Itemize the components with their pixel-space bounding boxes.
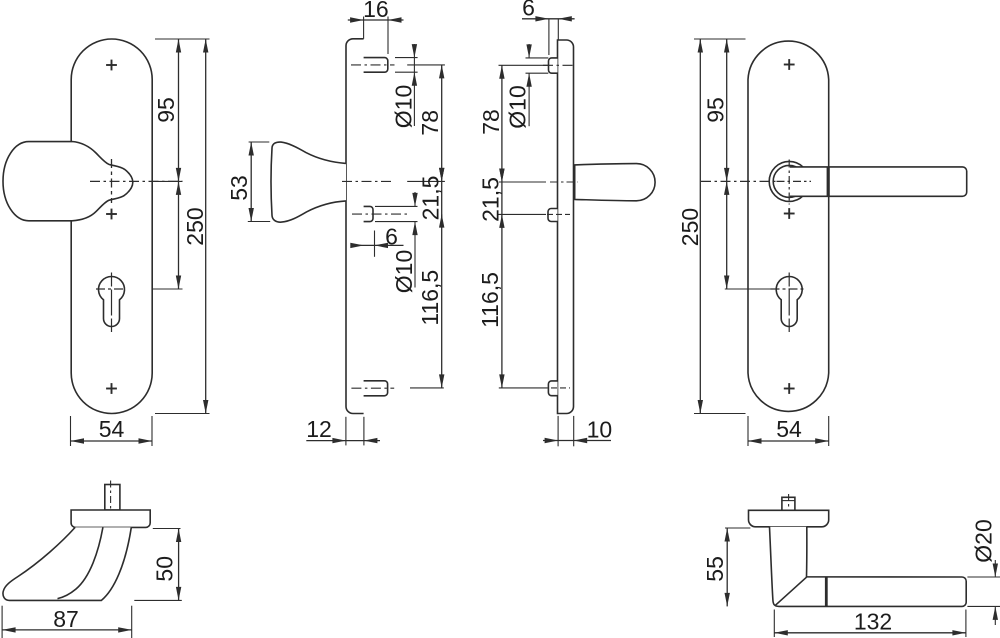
bolt middle centerline (fig3): [547, 213, 570, 215]
extension line plate top (fig1): [155, 38, 210, 40]
svg-text:78: 78: [478, 109, 504, 135]
lever bend miter line (fig6): [775, 577, 807, 606]
extension plate top (fig4): [694, 38, 746, 40]
cylinder axis cross vertical (fig1): [111, 273, 113, 333]
dimension 12 (fig2): [345, 417, 347, 446]
extension bolt-top axis (fig3): [499, 64, 550, 66]
dimension 78 (fig2): [441, 65, 443, 181]
exterior plate front view (stadium outline): [71, 39, 152, 414]
lever axis centerline vertical (fig4): [788, 160, 790, 205]
dimension 54 (fig4): [747, 416, 749, 446]
dimension 21,5 (fig3): [501, 182, 503, 214]
svg-text:95: 95: [702, 97, 728, 123]
lever rose (fig6): [749, 510, 829, 527]
svg-text:Ø10: Ø10: [504, 85, 530, 128]
extension bolt-top axis (fig2): [407, 64, 445, 66]
screw mark below axis (fig1): [106, 213, 117, 215]
screw mark bottom (fig1): [106, 388, 117, 390]
extension mid-bolt axis (fig3): [497, 213, 546, 215]
bolt bottom centerline (fig2): [351, 387, 394, 389]
bolt bottom centerline (fig3): [551, 387, 570, 389]
svg-text:Ø10: Ø10: [391, 250, 417, 293]
svg-text:54: 54: [776, 416, 802, 442]
plate side view interior (section): [558, 40, 574, 414]
dimension 116,5 (fig2): [441, 214, 443, 388]
dimension 250 (fig1): [205, 39, 207, 414]
dimension 21,5 (fig2): [441, 181, 443, 214]
dimension 95 (fig4): [726, 39, 728, 181]
plate side view exterior (section): [346, 39, 364, 414]
bolt top centerline (fig3): [543, 64, 576, 66]
cylinder axis cross horizontal (fig1): [96, 288, 124, 290]
dimension 95 (fig1): [178, 39, 180, 181]
dimension 6 (fig3): [548, 19, 550, 55]
dimension 16 (fig2): [363, 17, 365, 39]
svg-text:53: 53: [226, 175, 252, 201]
dimension 87 (fig5): [1, 606, 3, 638]
bolt top centerline (fig2): [351, 64, 395, 66]
lever rose inner circle (fig4): [773, 165, 805, 197]
fixing bolt bottom (fig2): [364, 381, 388, 396]
interior plate front view (stadium outline): [748, 41, 829, 411]
svg-text:Ø10: Ø10: [390, 85, 416, 128]
knob body (fig5): [3, 527, 131, 600]
screw mark bottom (fig4): [784, 388, 795, 390]
spindle stub (fig6): [782, 497, 795, 510]
cylinder axis cross vertical (fig4): [788, 273, 790, 333]
lever neck junction line (fig4): [827, 167, 830, 196]
cylinder keyhole (fig4): [776, 277, 802, 327]
dimension 250 (fig4): [699, 39, 701, 414]
svg-text:50: 50: [151, 556, 177, 582]
dimension lever axis to cylinder axis (fig4): [726, 181, 728, 289]
svg-text:55: 55: [702, 556, 728, 582]
lever grip junction line (fig6): [825, 577, 828, 606]
dimension Ø10 top bolt (fig2): [395, 57, 418, 59]
dimension knob axis to cylinder axis (fig1): [178, 181, 180, 289]
svg-text:116,5: 116,5: [477, 272, 503, 328]
extension cylinder axis (fig4): [725, 288, 771, 290]
dimension 53 (fig2): [249, 141, 270, 143]
spindle centerline (fig6): [788, 494, 790, 532]
knob axis centerline horizontal: [90, 180, 183, 182]
dimension 50 (fig5): [153, 528, 181, 530]
svg-text:6: 6: [522, 0, 535, 20]
knob front view (exterior): [3, 142, 133, 221]
screw mark below axis (fig4): [784, 213, 795, 215]
svg-text:116,5: 116,5: [417, 270, 443, 326]
dimension Ø10 top bolt (fig3): [526, 57, 549, 59]
screw mark top (fig4): [784, 64, 795, 66]
svg-text:54: 54: [99, 416, 125, 442]
lever axis centerline (fig3): [550, 181, 578, 183]
dimension 132 (fig6): [773, 610, 775, 638]
extension lever axis (fig4): [701, 180, 776, 182]
fixing bolt middle (fig2): [364, 206, 373, 221]
svg-text:78: 78: [417, 110, 443, 136]
svg-text:Ø20: Ø20: [970, 519, 996, 562]
lever neck and grip (fig6): [770, 527, 967, 607]
extension plate bottom (fig4): [694, 413, 746, 415]
lever axis centerline horizontal (fig4): [777, 180, 812, 182]
knob rose (fig5): [71, 510, 150, 527]
extension knob axis right (fig2): [407, 180, 445, 182]
dimension Ø10 middle bolt (fig2): [375, 205, 418, 207]
dimension 54 (fig1): [70, 416, 72, 446]
dimension 55 (fig6): [725, 527, 750, 529]
svg-text:95: 95: [153, 97, 179, 123]
cylinder axis cross horizontal (fig4): [771, 288, 806, 290]
fixing bolt bottom (fig3): [548, 381, 557, 396]
fixing bolt top (fig2): [364, 58, 388, 73]
svg-text:21,5: 21,5: [417, 176, 443, 221]
svg-text:250: 250: [677, 208, 703, 246]
knob side profile (fig2): [271, 142, 346, 222]
extension bottom-bolt axis (fig3): [499, 387, 548, 389]
dimension 78 (fig3): [501, 65, 503, 182]
knob axis centerline vertical: [111, 159, 113, 203]
extension lever axis left (fig3): [499, 181, 546, 183]
svg-text:250: 250: [182, 207, 208, 245]
fixing bolt middle (fig3): [548, 209, 558, 222]
svg-text:132: 132: [854, 608, 892, 634]
dimension 116,5 (fig3): [501, 214, 503, 388]
spindle centerline (fig5): [110, 481, 112, 517]
svg-text:10: 10: [587, 416, 613, 442]
extension line knob axis (fig1): [153, 180, 183, 182]
dimension Ø20 (fig6): [967, 576, 1000, 578]
extension line plate bottom (fig1): [155, 413, 210, 415]
screw mark top (fig1): [106, 64, 117, 66]
spindle stub (fig5): [105, 485, 120, 511]
knob axis centerline (fig2): [342, 180, 394, 182]
fixing bolt top (fig3): [549, 58, 558, 73]
lever handle end view (fig3): [575, 164, 655, 201]
dimension 6 (fig2): [374, 231, 376, 257]
knob neck inner curve (fig5): [58, 527, 103, 598]
svg-text:12: 12: [306, 416, 332, 442]
svg-text:16: 16: [363, 0, 389, 22]
dimension 10 (fig3): [557, 416, 559, 446]
lever grip bar (fig4): [790, 167, 967, 196]
svg-text:87: 87: [53, 606, 79, 632]
svg-text:6: 6: [385, 223, 398, 249]
extension line cylinder axis (fig1): [153, 288, 183, 290]
svg-text:21,5: 21,5: [477, 177, 503, 222]
lever rose outer circle (fig4): [769, 161, 809, 201]
bolt middle centerline (fig2): [352, 213, 410, 215]
cylinder keyhole (fig1): [99, 277, 125, 327]
